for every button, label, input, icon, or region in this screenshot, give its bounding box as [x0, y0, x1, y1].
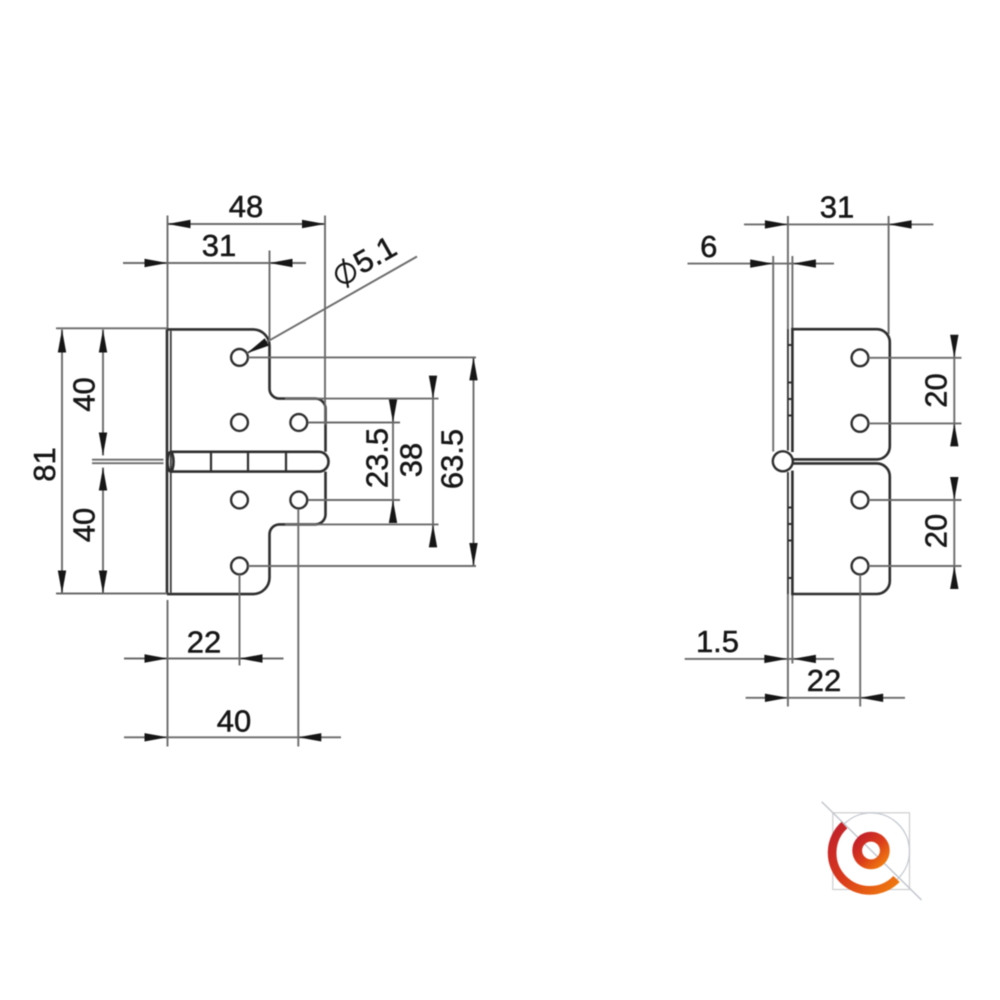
hole top: [231, 349, 248, 366]
arrow 63.5 top: [469, 357, 477, 380]
extension line 31 right: [269, 251, 271, 341]
extension 22 side vertical: [859, 575, 861, 707]
extension side hole2: [869, 422, 962, 424]
extension line step upper: [285, 398, 439, 400]
hole row2 left: [231, 414, 248, 431]
dimension line 40 upper: [102, 330, 104, 456]
extension line hole22 vertical: [239, 575, 241, 666]
arrow 81 bottom: [58, 571, 66, 594]
arrow 23.5 bottom: [389, 500, 397, 523]
svg-text:31: 31: [820, 190, 854, 225]
dimension line 22: [124, 658, 284, 660]
plate left edge inner: [170, 331, 172, 593]
hole row3 left: [231, 492, 248, 509]
logo gray circle: [833, 813, 910, 890]
arrow 40l top: [99, 468, 107, 491]
hinge barrel: [171, 452, 329, 472]
svg-text:20: 20: [919, 373, 954, 407]
extension line step lower: [285, 523, 439, 525]
extension line top-left horizontal: [56, 327, 167, 329]
arrow 20l top: [950, 477, 958, 500]
arrow 40l bottom: [99, 571, 107, 594]
extension side hole1: [869, 357, 962, 359]
arrow 22 right: [240, 654, 263, 662]
knuckle tick l4: [788, 577, 793, 579]
extension face line lower: [791, 593, 793, 664]
barrel seam 2: [247, 452, 249, 472]
barrel seam 3: [285, 452, 287, 472]
extension line left top vertical: [167, 216, 169, 329]
knuckle tick l1: [788, 507, 793, 509]
leader line diameter: [247, 257, 417, 354]
extension line hole bottom: [248, 565, 476, 567]
dimension line 38: [432, 383, 434, 537]
svg-text:1.5: 1.5: [696, 624, 739, 659]
upper leaf outline: [792, 329, 889, 459]
svg-text:23.5: 23.5: [360, 428, 395, 488]
svg-text:40: 40: [217, 704, 251, 739]
dimension line 20 lower: [953, 478, 955, 588]
extension line 48 right: [324, 216, 326, 426]
dimension line 22 side: [746, 697, 905, 699]
dimension line 1.5: [685, 658, 834, 660]
leaf back edge dark lower: [787, 472, 789, 594]
arrow 40u bottom: [99, 433, 107, 456]
svg-text:31: 31: [202, 228, 236, 263]
arrow 6 left: [750, 259, 773, 267]
svg-text:81: 81: [27, 447, 62, 481]
extension back line upper: [787, 216, 789, 451]
arrow 31 left: [145, 259, 168, 267]
logo square frame: [833, 813, 910, 890]
knuckle tick l2: [788, 523, 793, 525]
arrow 1.5 left: [764, 655, 787, 663]
dimension line 63.5: [473, 357, 475, 566]
pin left cap: [168, 452, 174, 471]
svg-text:22: 22: [187, 625, 221, 660]
svg-text:63.5: 63.5: [435, 429, 470, 489]
extension line row2: [308, 422, 400, 424]
dimension line 81: [61, 330, 63, 594]
svg-text:22: 22: [807, 663, 841, 698]
dimension line 6: [688, 263, 835, 265]
logo big C arc: [832, 825, 896, 890]
plate left edge outer: [166, 329, 169, 594]
arrow 22s right: [860, 694, 883, 702]
label diameter 5.1: [328, 229, 402, 292]
logo inner ring: [857, 837, 885, 865]
extension line hole top: [248, 356, 476, 358]
dimension line 31: [123, 262, 306, 264]
leader arrow: [247, 338, 269, 353]
svg-text:40: 40: [67, 508, 102, 542]
hole row2 right: [290, 414, 307, 431]
arrow 22s left: [765, 694, 788, 702]
arrow 38 top: [429, 376, 437, 399]
barrel seam 1: [210, 452, 212, 472]
arrow 20u bottom: [950, 423, 958, 446]
dimension line 31 side: [744, 223, 933, 225]
hole row3 right: [290, 492, 307, 509]
knuckle tick u1: [788, 344, 793, 346]
arrow 40u top: [99, 330, 107, 353]
arrow 48 right: [302, 220, 325, 228]
extension line hole40 vertical: [297, 509, 299, 747]
arrow 81 top: [58, 330, 66, 353]
knuckle tick u4: [788, 415, 793, 417]
arrow 31 right: [270, 259, 293, 267]
knuckle tick u3: [788, 398, 793, 400]
side hole 1: [852, 349, 869, 366]
arrow 31s right: [889, 220, 912, 228]
arrow 6 right: [793, 259, 816, 267]
extension face line upper: [791, 256, 793, 330]
dimension line 40 lower: [102, 468, 104, 594]
extension side hole3: [869, 499, 962, 501]
extension 31 right: [888, 216, 890, 334]
upper plate outline: [167, 329, 326, 451]
extension side hole4: [869, 565, 962, 567]
arrow 40b left: [145, 733, 168, 741]
arrow 20l bottom: [950, 566, 958, 589]
arrow 23.5 top: [389, 400, 397, 423]
arrow 48 left: [168, 220, 191, 228]
center line upper: [92, 459, 164, 461]
arrow 40b right: [298, 733, 321, 741]
svg-text:6: 6: [700, 229, 717, 264]
svg-text:20: 20: [919, 514, 954, 548]
side hole 4: [852, 558, 869, 575]
hole bottom: [231, 558, 248, 575]
dimension line 23.5: [392, 400, 394, 523]
arrow 22 left: [145, 654, 168, 662]
knuckle tick u2: [788, 382, 793, 384]
leaf back edge dark upper: [787, 329, 789, 450]
extension line bottom-left horizontal: [56, 593, 167, 595]
svg-text:38: 38: [394, 443, 429, 477]
extension line left bottom vertical: [167, 600, 169, 747]
extension line row3: [308, 499, 400, 501]
svg-text:40: 40: [67, 377, 102, 411]
dimension line 40 bottom: [124, 736, 341, 738]
extension 6 left: [772, 256, 774, 452]
arrow 38 bottom: [429, 524, 437, 547]
dimension line 20 upper: [953, 336, 955, 446]
logo diagonal line: [822, 802, 922, 900]
arrow 20u top: [950, 335, 958, 358]
dimension line 48: [168, 223, 326, 225]
side hole 2: [852, 415, 869, 432]
lower plate outline: [167, 472, 326, 594]
svg-text:48: 48: [229, 189, 263, 224]
side hole 3: [852, 492, 869, 509]
lower leaf outline: [792, 463, 889, 594]
arrow 63.5 bottom: [469, 543, 477, 566]
center line lower: [92, 462, 164, 464]
arrow 31s left: [765, 220, 788, 228]
pin circle: [773, 451, 793, 471]
arrow 1.5 right: [793, 655, 816, 663]
extension back line lower: [787, 472, 789, 707]
knuckle tick l3: [788, 540, 793, 542]
